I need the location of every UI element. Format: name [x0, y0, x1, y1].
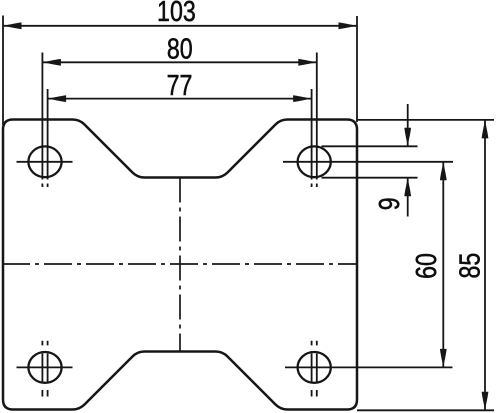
svg-text:85: 85 [453, 253, 486, 279]
tangent line hole bottom (9 dim) [322, 177, 418, 179]
svg-text:9: 9 [372, 197, 405, 210]
hole bottom-left [28, 352, 61, 383]
extension line 80 right (through top-right hole) [316, 53, 318, 188]
extension line 77 right (through top-right hole) [311, 89, 313, 187]
arrow 103 right [339, 22, 358, 29]
arrow 85 down [482, 392, 489, 411]
top edge extension right [357, 119, 494, 121]
svg-text:77: 77 [167, 68, 193, 101]
bottom edge extension right [357, 409, 494, 411]
dim line 80 [42, 61, 316, 63]
plate outline [3, 120, 357, 410]
dim line 9 lower [407, 178, 409, 217]
arrow 9 down [404, 128, 411, 147]
svg-text:60: 60 [409, 253, 442, 279]
hole top-right [298, 146, 331, 177]
arrow 9 up [404, 178, 411, 197]
arrow 103 left [3, 22, 22, 29]
vertical centerline plate (dash-dot) [179, 178, 181, 352]
svg-text:103: 103 [157, 0, 196, 28]
extension line 103 right [356, 16, 358, 122]
crosshair horizontal top-right hole, extends to 60-dim [283, 161, 453, 163]
arrow 85 up [482, 120, 489, 138]
arrow 80 right [298, 59, 317, 66]
arrow 80 left [42, 59, 61, 66]
crosshair horizontal bottom-right hole, extends to 60-dim [285, 366, 453, 368]
arrow 60 up [440, 162, 447, 181]
extension line 80 left (through top-left hole) [41, 53, 43, 188]
center marks bottom-right hole verticals [311, 341, 313, 397]
extension line 77 left (through top-left hole) [47, 89, 49, 187]
crosshair horizontal bottom-left hole [17, 366, 73, 368]
dim line 77 [48, 98, 312, 100]
crosshair horizontal top-left hole [17, 161, 73, 163]
arrow 60 down [440, 349, 447, 368]
tangent line hole top (9 dim) [322, 145, 418, 147]
dim line 103 [3, 25, 357, 27]
arrow 77 right [293, 95, 312, 102]
hole bottom-right [298, 352, 331, 383]
center marks bottom-left hole verticals [41, 341, 43, 397]
hole top-left [28, 146, 61, 177]
dim line 60 [442, 162, 444, 368]
extension line 103 left [2, 16, 4, 126]
dim line 9 upper [407, 104, 409, 146]
horizontal centerline plate (dash-dot) [2, 263, 357, 265]
svg-text:80: 80 [167, 32, 193, 65]
dim line 85 [484, 120, 486, 410]
arrow 77 left [48, 95, 67, 102]
